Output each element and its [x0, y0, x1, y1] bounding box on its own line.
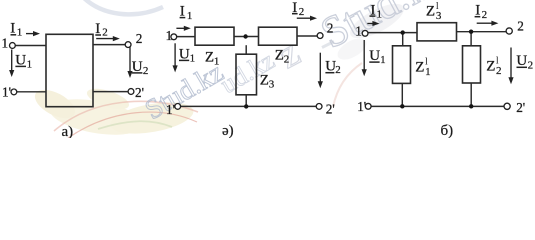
- svg-text:l: l: [425, 57, 428, 68]
- svg-text:Z: Z: [260, 72, 269, 88]
- svg-text:U: U: [15, 52, 26, 68]
- svg-text:U: U: [132, 59, 143, 75]
- svg-text:I: I: [370, 2, 375, 18]
- svg-text:I: I: [180, 4, 185, 20]
- svg-text:Z: Z: [486, 59, 495, 75]
- svg-text:1': 1': [2, 85, 11, 100]
- svg-text:1: 1: [17, 27, 23, 39]
- svg-text:1': 1': [166, 102, 175, 117]
- svg-text:Z: Z: [205, 49, 214, 65]
- svg-text:1: 1: [190, 53, 196, 65]
- svg-text:2: 2: [284, 53, 290, 65]
- svg-text:I: I: [292, 0, 297, 16]
- svg-text:2: 2: [482, 9, 488, 21]
- svg-text:1: 1: [355, 24, 362, 39]
- svg-text:Z: Z: [275, 48, 284, 64]
- svg-text:б): б): [441, 123, 454, 138]
- svg-text:U: U: [179, 47, 190, 63]
- svg-text:Z: Z: [415, 60, 424, 76]
- svg-text:2': 2': [135, 85, 144, 100]
- svg-text:1': 1': [357, 99, 366, 114]
- svg-text:1: 1: [166, 28, 173, 43]
- svg-text:1: 1: [27, 58, 32, 70]
- svg-text:2: 2: [335, 64, 341, 76]
- svg-text:2: 2: [517, 18, 524, 33]
- svg-text:1: 1: [425, 66, 431, 78]
- svg-text:1: 1: [380, 54, 386, 66]
- svg-text:1: 1: [214, 55, 220, 67]
- svg-text:а): а): [62, 124, 74, 138]
- svg-text:I: I: [475, 3, 480, 19]
- svg-text:2': 2': [326, 101, 335, 116]
- svg-text:2: 2: [143, 65, 149, 77]
- svg-text:Z: Z: [426, 4, 435, 20]
- svg-text:U: U: [516, 53, 527, 69]
- svg-text:I: I: [10, 21, 15, 37]
- svg-text:1: 1: [2, 36, 9, 51]
- svg-text:2: 2: [496, 65, 502, 77]
- svg-text:1: 1: [187, 10, 193, 22]
- svg-text:U: U: [369, 48, 380, 64]
- svg-text:1: 1: [377, 8, 383, 20]
- svg-text:2: 2: [102, 26, 108, 38]
- svg-text:2: 2: [136, 31, 143, 46]
- svg-text:2: 2: [528, 59, 534, 71]
- svg-text:3: 3: [269, 78, 275, 90]
- svg-text:I: I: [95, 21, 100, 37]
- svg-text:2': 2': [516, 100, 525, 115]
- svg-text:2: 2: [327, 21, 334, 36]
- svg-text:2: 2: [299, 6, 305, 18]
- svg-text:l: l: [496, 56, 499, 67]
- svg-text:l: l: [436, 1, 439, 12]
- svg-text:ә): ә): [222, 123, 234, 138]
